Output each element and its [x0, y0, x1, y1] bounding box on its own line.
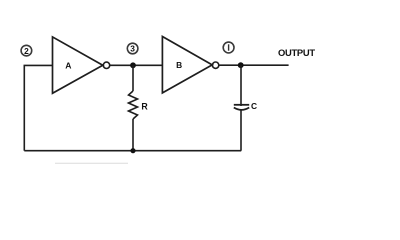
svg-text:OUTPUT: OUTPUT [278, 47, 315, 58]
capacitor C [234, 101, 257, 111]
resistor R [129, 91, 149, 119]
wire: resistor to bottom rail [132, 119, 134, 151]
wire: output node down to capacitor [240, 65, 242, 106]
op-amp inverter A [53, 37, 103, 93]
wire: A output to B input [110, 64, 162, 66]
op-amp inverter B [162, 37, 212, 93]
bottom rail junction [130, 148, 135, 153]
output node junction [238, 62, 244, 68]
node 2 circled label [21, 45, 32, 56]
wire: B output to output terminal [219, 64, 289, 66]
wire: node 3 down to resistor [132, 65, 134, 91]
wire: feedback left vertical [23, 65, 25, 150]
wire: bottom rail [24, 150, 241, 152]
wire: input to inverter A [24, 64, 53, 66]
node 3 junction [130, 62, 136, 68]
svg-text:B: B [176, 60, 182, 70]
svg-text:A: A [65, 61, 71, 71]
svg-text:C: C [251, 101, 257, 111]
faint scan artifact line [55, 162, 128, 164]
node 1 circled label [223, 42, 234, 53]
svg-text:2: 2 [24, 46, 29, 56]
svg-text:3: 3 [130, 44, 135, 54]
inverter B output bubble [212, 62, 218, 68]
svg-text:R: R [141, 101, 148, 111]
inverter A output bubble [103, 62, 109, 68]
wire: capacitor to bottom rail [240, 110, 242, 150]
node 3 circled label [127, 43, 138, 54]
